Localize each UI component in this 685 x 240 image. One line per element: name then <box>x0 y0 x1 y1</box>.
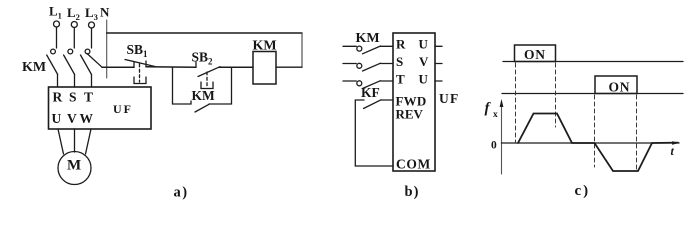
svg-text:UF: UF <box>113 102 133 116</box>
wire UF to motor 3 <box>86 129 92 154</box>
svg-text:ON: ON <box>524 47 546 62</box>
wire phase1 to UF <box>57 75 59 88</box>
svg-text:T: T <box>396 72 405 87</box>
dashed guide t3 <box>594 95 596 167</box>
svg-text:KM: KM <box>22 60 46 75</box>
wire L3 drop <box>91 28 93 48</box>
svg-text:T: T <box>84 90 93 105</box>
svg-text:M: M <box>67 158 81 174</box>
svg-text:a): a) <box>174 185 189 201</box>
svg-text:ON: ON <box>609 80 631 95</box>
wire phase3 to UF <box>91 75 93 88</box>
svg-text:W: W <box>80 111 94 126</box>
svg-text:S: S <box>396 54 403 69</box>
pushbutton SB1 (NC) <box>133 62 135 68</box>
svg-text:b): b) <box>405 184 420 200</box>
wire control tap from L3 <box>87 54 102 68</box>
wire parallel branch left <box>173 67 192 104</box>
pushbutton SB2 (NO) <box>195 62 197 67</box>
wire N to coil return (top line) <box>107 32 302 34</box>
axis zero line <box>502 142 680 144</box>
svg-text:c): c) <box>575 183 591 199</box>
wire U stub <box>435 45 442 47</box>
svg-text:KM: KM <box>192 88 216 103</box>
terminal L1 <box>54 21 60 27</box>
dashed guide t1 <box>515 63 517 142</box>
signal row 2 baseline <box>502 93 683 95</box>
svg-text:KF: KF <box>361 85 380 100</box>
contactor KM main contact 2 <box>68 49 73 54</box>
wire L1 drop <box>56 27 58 48</box>
contact KM-S (b) <box>343 63 356 65</box>
contact KM-R (b) <box>343 45 356 47</box>
wire N drop <box>106 20 108 78</box>
svg-text:COM: COM <box>396 157 431 172</box>
contactor KM main contact 1 <box>51 49 56 54</box>
waveform fx <box>518 114 678 172</box>
svg-text:UF: UF <box>439 91 459 106</box>
pulse ON 2 <box>595 76 637 94</box>
wire KF loop <box>355 100 393 166</box>
svg-text:U: U <box>419 72 429 87</box>
svg-text:REV: REV <box>396 107 424 122</box>
svg-text:R: R <box>396 37 406 52</box>
dashed guide t2 <box>555 63 557 127</box>
wire control rung left <box>102 66 134 68</box>
wire coil return vertical <box>301 33 303 67</box>
svg-text:S: S <box>69 90 77 105</box>
wire UF to motor 2 <box>74 129 76 152</box>
svg-text:R: R <box>53 90 63 105</box>
coil KM <box>253 52 276 85</box>
motor M <box>58 152 91 185</box>
wire SB1 to SB2 <box>146 66 196 68</box>
svg-text:0: 0 <box>491 140 497 152</box>
wire W stub <box>435 80 442 82</box>
svg-text:V: V <box>419 54 429 69</box>
svg-text:U: U <box>419 37 429 52</box>
wire V stub <box>435 63 442 65</box>
contact KM-T (b) <box>343 80 356 82</box>
wire L2 drop <box>73 28 75 49</box>
auxiliary contact KM (NO) <box>190 101 192 104</box>
wire parallel branch right <box>209 67 232 104</box>
contact KF (NO) <box>355 99 364 101</box>
inverter UF box (b) <box>393 33 435 171</box>
inverter UF box <box>49 87 152 129</box>
dashed guide t4 <box>636 95 638 170</box>
terminal L2 <box>71 22 77 28</box>
wire coil to return <box>276 66 302 68</box>
svg-text:x: x <box>493 110 498 120</box>
svg-text:U: U <box>52 111 62 126</box>
wire SB2 to coil <box>219 66 253 68</box>
svg-text:N: N <box>100 5 110 20</box>
pulse ON 1 <box>515 45 556 62</box>
svg-text:V: V <box>67 111 77 126</box>
signal row 1 baseline <box>503 61 683 63</box>
wire phase2 to UF <box>74 75 76 88</box>
terminal L3 <box>89 22 95 28</box>
svg-text:KM: KM <box>356 31 380 46</box>
wire UF to motor 1 <box>58 129 64 154</box>
contactor KM main contact 3 <box>85 49 90 54</box>
axis fx vertical <box>501 101 503 174</box>
